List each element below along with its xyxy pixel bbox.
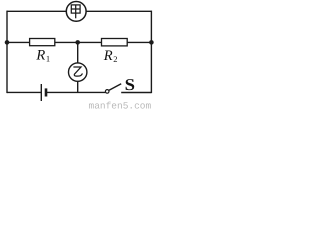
svg-text:2: 2	[113, 54, 117, 64]
wire top-right segment	[86, 10, 151, 12]
resistor R2	[102, 39, 128, 46]
meter A2 "yi" (circle meter)	[69, 63, 87, 81]
wire center junction down to meter A2 top	[77, 42, 79, 63]
node junction left	[5, 40, 10, 45]
resistor R1	[30, 39, 55, 46]
node junction right	[149, 40, 154, 45]
label S	[125, 75, 135, 94]
wire bottom-left to battery	[7, 91, 41, 93]
wire middle rail center	[55, 41, 102, 43]
battery BT1 short plate	[45, 88, 48, 96]
meter A1 "jia" (circle meter)	[66, 2, 86, 22]
wire middle rail left	[7, 41, 30, 43]
wire left vertical	[6, 11, 8, 94]
switch S pivot	[105, 90, 109, 94]
wire right vertical	[150, 11, 152, 94]
battery BT1 long plate	[40, 84, 42, 101]
switch S lever	[109, 84, 121, 91]
svg-text:R: R	[103, 48, 113, 64]
wire meter A2 bottom to bottom rail	[77, 81, 79, 92]
wire top-left segment	[7, 10, 66, 12]
wire battery to switch pivot	[46, 91, 105, 93]
wire middle rail right	[127, 41, 151, 43]
node junction center	[75, 40, 80, 45]
wire switch contact to bottom-right	[121, 92, 151, 94]
svg-text:R: R	[35, 48, 45, 64]
svg-text:1: 1	[46, 54, 50, 64]
svg-text:manfen5.com: manfen5.com	[89, 101, 152, 112]
svg-text:S: S	[125, 75, 135, 94]
